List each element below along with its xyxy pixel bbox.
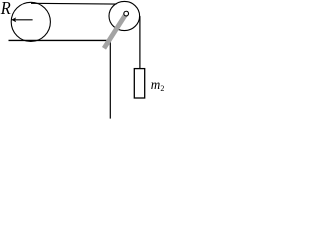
table surface: [9, 39, 111, 41]
axle pin: [124, 11, 129, 16]
string top: [31, 2, 117, 5]
table leg: [109, 40, 111, 118]
radius arrow: [11, 17, 32, 22]
svg-text:m2: m2: [151, 77, 165, 93]
pulley: [109, 1, 140, 30]
svg-text:R: R: [0, 0, 11, 18]
string right: [139, 16, 141, 69]
mass m2 block: [134, 69, 144, 98]
wheel R: [11, 2, 50, 41]
rod (pulley support): [104, 14, 126, 49]
